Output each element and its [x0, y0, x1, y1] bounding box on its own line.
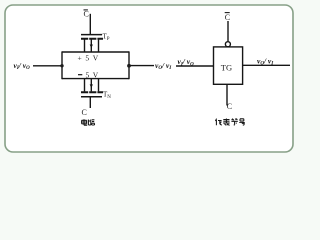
svg-text:C: C [82, 108, 87, 117]
svg-text:+ 5 V: + 5 V [78, 54, 100, 63]
caption dianlu char1 [82, 119, 88, 125]
transistor Q2 substrate lead [90, 79, 92, 92]
wire output [129, 65, 154, 67]
transistor Q1 right leg [98, 39, 100, 52]
TG bottom lead [226, 84, 228, 105]
svg-text:C: C [227, 102, 232, 111]
transistor Q1 channel bar [81, 38, 103, 40]
wire right vertical [128, 51, 130, 79]
svg-text:TG: TG [221, 62, 232, 72]
transistor Q1 left leg [84, 39, 86, 52]
transistor Q2 channel bar [81, 91, 103, 93]
TG input wire [176, 65, 214, 67]
transistor Q2 gate bar [81, 96, 102, 98]
transistor Q2 gate lead [89, 97, 91, 108]
caption daibiaofuhao char4 [239, 119, 244, 126]
transistor Q1 substrate lead [90, 39, 92, 52]
wire top rail [62, 51, 129, 53]
transistor Q2 substrate arrowhead [90, 84, 93, 88]
svg-text:5 V: 5 V [86, 71, 100, 80]
wire bottom rail [62, 78, 129, 80]
TG box U1 [214, 47, 243, 84]
transistor Q1 gate bar [81, 34, 102, 36]
transistor Q2 right leg [98, 79, 100, 92]
TG inversion bubble [225, 42, 230, 47]
wire input [33, 65, 62, 67]
transistor Q2 left leg [84, 79, 86, 92]
wire left vertical [61, 51, 63, 79]
green rounded frame [5, 5, 293, 152]
svg-text:C: C [84, 10, 89, 19]
svg-text:C: C [225, 13, 230, 22]
junction dot right [127, 64, 131, 68]
transistor Q1 gate lead [89, 14, 91, 35]
panel background [0, 0, 300, 158]
TG output wire [243, 64, 290, 66]
TG gate top lead [227, 21, 229, 41]
caption daibiaofuhao char1 [215, 119, 221, 126]
caption daibiaofuhao char2 [223, 119, 230, 126]
transistor Q1 substrate arrowhead [90, 45, 93, 49]
caption daibiaofuhao char3 [231, 119, 237, 126]
junction dot left [60, 64, 63, 67]
caption dianlu char2 [88, 120, 94, 126]
